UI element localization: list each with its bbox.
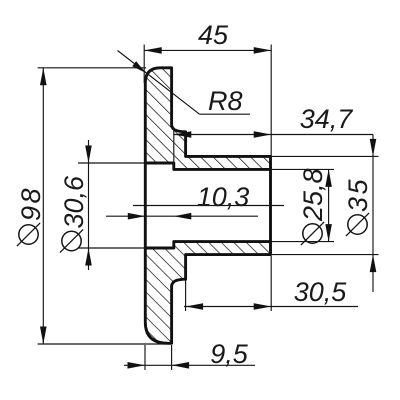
- svg-text:10,3: 10,3: [197, 182, 250, 212]
- dim 10.3 arrows (outside): [128, 213, 146, 220]
- dim 45 arrows: [144, 47, 162, 54]
- dim 9.5: extension lines: [144, 345, 146, 370]
- dim 30.5 arrows: [186, 303, 204, 310]
- dim 45: extension lines: [143, 45, 145, 84]
- dim 10.3: dimension line: [106, 215, 258, 217]
- svg-text:30,6: 30,6: [59, 175, 89, 229]
- dim 30.5: extension lines: [185, 256, 187, 311]
- dim phi30.6: dimension line: [88, 140, 90, 270]
- svg-text:34,7: 34,7: [300, 104, 354, 134]
- svg-text:R8: R8: [208, 86, 243, 116]
- R8 leader line: [118, 51, 200, 115]
- dim phi25.8 arrows: [325, 169, 332, 187]
- dim phi35: dimension line: [372, 135, 374, 293]
- svg-text:45: 45: [198, 20, 229, 50]
- svg-text:30,5: 30,5: [294, 277, 348, 307]
- dim 34.7: left extension line: [173, 129, 175, 164]
- svg-text:98: 98: [16, 186, 46, 221]
- svg-text:25,8: 25,8: [298, 168, 328, 222]
- dim 34.7 arrows: [174, 131, 192, 138]
- dim phi98 text: [16, 186, 46, 246]
- dim phi30.6 text: [59, 175, 89, 253]
- flange left face across counterbore opening: [144, 163, 147, 248]
- dim phi35 arrows: [370, 139, 377, 157]
- dim phi25.8: dimension line: [328, 169, 330, 241]
- dim 9.5: dimension line: [124, 364, 255, 366]
- dim phi35: extension lines: [272, 155, 379, 157]
- dim 34.7: dimension line: [174, 134, 373, 136]
- dim phi25.8: extension lines: [272, 168, 334, 170]
- boss right end face across bore: [269, 169, 272, 241]
- center axis line: [133, 205, 284, 207]
- dim phi98 arrows: [40, 68, 47, 86]
- dim 30.5: dimension line: [184, 306, 358, 308]
- R8 leader arrow: [132, 61, 146, 73]
- dim phi30.6 arrows (outside): [85, 146, 92, 164]
- dim phi98: extension lines: [38, 67, 146, 69]
- dim phi35 text: [343, 177, 373, 236]
- dim phi25.8 text: [298, 168, 328, 245]
- dim 9.5 arrows (outside): [128, 362, 146, 369]
- dim 45: dimension line: [144, 49, 271, 51]
- svg-text:9,5: 9,5: [210, 339, 249, 369]
- dim phi98: dimension line: [42, 68, 44, 344]
- section body upper half (hatched): [145, 68, 270, 170]
- svg-text:35: 35: [343, 177, 373, 212]
- dim phi30.6: extension lines: [78, 162, 145, 164]
- section body lower half (hatched): [145, 242, 270, 344]
